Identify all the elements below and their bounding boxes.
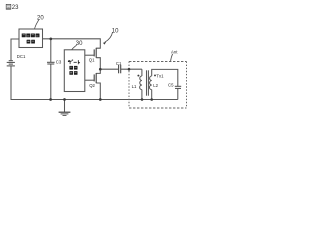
svg-text:DC1: DC1 [17, 54, 26, 59]
svg-text:L2: L2 [153, 83, 158, 88]
svg-text:C3: C3 [56, 60, 62, 65]
svg-text:Q2: Q2 [89, 83, 95, 88]
svg-text:C5: C5 [168, 82, 174, 87]
svg-text:C1: C1 [116, 61, 122, 66]
svg-text:23: 23 [12, 5, 19, 11]
svg-text:Ant: Ant [171, 49, 178, 54]
svg-text:10: 10 [112, 29, 119, 35]
svg-text:Tx1: Tx1 [156, 73, 164, 78]
svg-text:L1: L1 [132, 84, 137, 89]
svg-text:Q1: Q1 [89, 57, 95, 62]
svg-text:20: 20 [37, 15, 44, 21]
svg-text:30: 30 [76, 41, 83, 47]
